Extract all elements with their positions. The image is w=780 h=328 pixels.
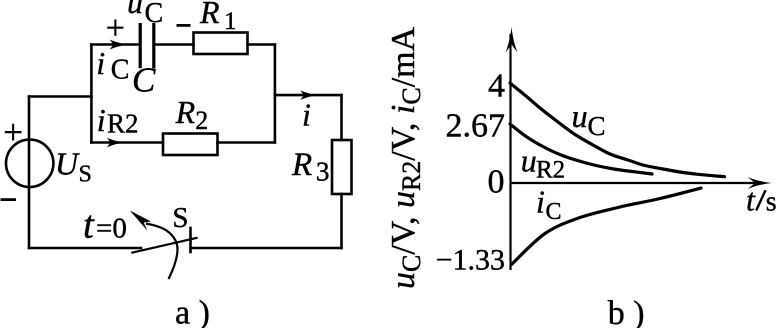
svg-text:C: C <box>546 199 562 225</box>
svg-text:u: u <box>127 0 143 20</box>
svg-text:C: C <box>145 0 164 29</box>
svg-text:4: 4 <box>488 67 505 104</box>
svg-text:U: U <box>55 146 80 182</box>
svg-text:R: R <box>291 147 312 183</box>
svg-text:b ): b ) <box>608 295 645 328</box>
svg-text:uC/V, uR2/V, iC/mA: uC/V, uR2/V, iC/mA <box>385 26 426 289</box>
svg-text:+: + <box>106 10 125 47</box>
svg-text:1: 1 <box>224 8 237 35</box>
svg-text:3: 3 <box>316 156 330 186</box>
svg-text:R: R <box>199 0 220 30</box>
svg-text:i: i <box>536 184 545 220</box>
svg-text:i: i <box>97 102 106 138</box>
svg-text:−1.33: −1.33 <box>436 244 505 277</box>
svg-text:R2: R2 <box>536 157 565 184</box>
svg-text:t: t <box>746 182 756 218</box>
svg-text:s: s <box>766 187 777 218</box>
svg-text:C: C <box>588 111 606 141</box>
svg-text:t: t <box>83 204 95 247</box>
svg-text:0: 0 <box>488 163 505 200</box>
svg-text:=0: =0 <box>96 213 127 245</box>
svg-text:a ): a ) <box>175 294 210 328</box>
svg-text:R2: R2 <box>107 109 139 139</box>
svg-text:S: S <box>172 202 188 234</box>
svg-text:C: C <box>111 55 130 86</box>
svg-text:2.67: 2.67 <box>446 108 506 145</box>
svg-text:u: u <box>521 143 537 179</box>
svg-text:u: u <box>572 98 588 134</box>
svg-text:2: 2 <box>195 106 208 135</box>
svg-text:R: R <box>175 94 196 130</box>
svg-text:i: i <box>302 97 311 133</box>
svg-text:+: + <box>3 113 23 152</box>
svg-text:C: C <box>132 61 156 100</box>
svg-text:i: i <box>96 45 105 81</box>
svg-text:S: S <box>79 161 92 187</box>
